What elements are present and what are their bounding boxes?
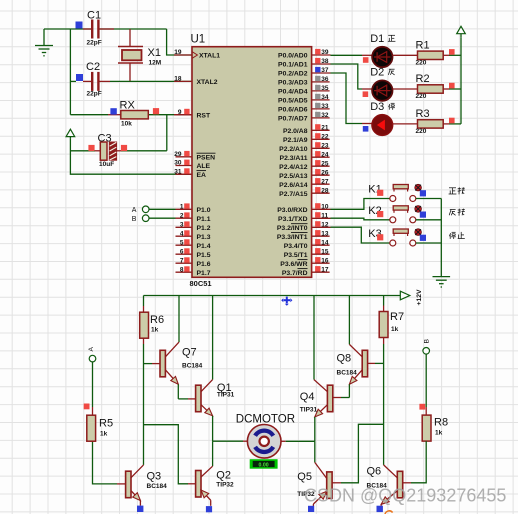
U1 pin 15 (P3.5/T1) bbox=[284, 248, 330, 259]
svg-text:R6: R6 bbox=[150, 314, 164, 326]
svg-text:D2: D2 bbox=[370, 67, 384, 79]
junction square (Q5 emitter, blue) bbox=[308, 506, 314, 512]
transistor Q2 (TIP32) bbox=[196, 466, 234, 500]
svg-text:11: 11 bbox=[321, 213, 328, 220]
svg-text:R5: R5 bbox=[99, 418, 113, 430]
wire: R7 bottom down to Q6 collector bbox=[383, 338, 385, 465]
junction square (Q2 emitter, blue) bbox=[206, 506, 212, 512]
label 反转 (K2) bbox=[449, 209, 465, 216]
svg-text:1k: 1k bbox=[391, 326, 399, 333]
svg-text:22pF: 22pF bbox=[87, 91, 102, 98]
svg-text:P3.3/INT1: P3.3/INT1 bbox=[277, 234, 308, 241]
svg-text:10uF: 10uF bbox=[99, 161, 114, 168]
svg-text:A: A bbox=[132, 207, 137, 214]
wire: Q3-collector node to Q2 base bbox=[144, 425, 196, 484]
junction square (C3 right, red) bbox=[121, 145, 127, 151]
svg-text:26: 26 bbox=[321, 169, 329, 176]
transistor Q6 (BC184) bbox=[367, 465, 403, 504]
wire: Q7 emitter to Q1 base bbox=[178, 384, 195, 399]
svg-text:9: 9 bbox=[178, 109, 182, 116]
svg-text:22pF: 22pF bbox=[87, 40, 102, 47]
power terminal (EA pull-up arrow) bbox=[66, 129, 75, 139]
ground (buttons) bbox=[433, 277, 451, 287]
U1 pin 30 (ALE) bbox=[174, 160, 210, 171]
svg-text:13: 13 bbox=[321, 230, 329, 237]
wire: R8 bottom to Q6 base bbox=[403, 441, 427, 483]
U1 pin 11 (P3.1/TXD) bbox=[278, 212, 330, 223]
svg-text:27: 27 bbox=[321, 178, 329, 185]
svg-text:TIP31: TIP31 bbox=[300, 407, 318, 414]
svg-text:4: 4 bbox=[180, 230, 184, 237]
U1 pin 10 (P3.0/RXD) bbox=[277, 203, 330, 214]
wire: Q6-collector node to Q5 base bbox=[332, 424, 383, 483]
junction square (K1 right, blue) bbox=[420, 190, 426, 196]
svg-text:C3: C3 bbox=[98, 133, 112, 145]
power terminal +12V (arrow right) bbox=[400, 289, 423, 306]
U1 pin 21 (P2.0/A8) bbox=[283, 124, 330, 135]
junction square (C3 left, red) bbox=[88, 145, 94, 151]
svg-text:24: 24 bbox=[321, 151, 329, 158]
svg-text:P3.2/INT0: P3.2/INT0 bbox=[277, 225, 308, 232]
svg-text:14: 14 bbox=[321, 239, 329, 246]
U1 pin 1 (P1.0) bbox=[180, 203, 211, 214]
svg-text:R8: R8 bbox=[434, 417, 448, 429]
junction square (K1 left, red) bbox=[377, 190, 383, 196]
svg-text:B: B bbox=[132, 216, 137, 223]
resistor R1 (220) bbox=[416, 40, 444, 67]
svg-text:D1: D1 bbox=[370, 33, 384, 45]
svg-text:3: 3 bbox=[180, 222, 184, 229]
svg-text:220: 220 bbox=[416, 93, 427, 100]
svg-text:P2.1/A9: P2.1/A9 bbox=[283, 137, 308, 144]
node A (terminal to P1.0) bbox=[132, 206, 192, 214]
svg-text:A: A bbox=[88, 347, 95, 352]
svg-text:P0.0/AD0: P0.0/AD0 bbox=[278, 53, 308, 60]
wire: buttons to ground bus bbox=[416, 199, 442, 277]
svg-text:P3.6/WR: P3.6/WR bbox=[280, 261, 307, 268]
svg-text:10: 10 bbox=[321, 204, 329, 211]
svg-text:1k: 1k bbox=[100, 431, 108, 438]
svg-text:DCMOTOR: DCMOTOR bbox=[236, 414, 295, 426]
svg-text:15: 15 bbox=[321, 248, 329, 255]
U1 pin 22 (P2.1/A9) bbox=[283, 133, 330, 144]
wire: +12V rail bbox=[144, 295, 401, 297]
U1 pin 27 (P2.6/A14) bbox=[279, 178, 329, 189]
svg-text:P2.4/A12: P2.4/A12 bbox=[279, 164, 308, 171]
wire: RST net (left rail to RX to U1 pin 9) bbox=[70, 115, 192, 151]
U1 pin 12 (P3.2/INT0) bbox=[277, 221, 331, 232]
svg-text:36: 36 bbox=[321, 76, 329, 83]
svg-text:Q5: Q5 bbox=[297, 471, 312, 483]
svg-text:1k: 1k bbox=[151, 327, 159, 334]
svg-text:XTAL1: XTAL1 bbox=[199, 53, 220, 60]
junction square (K3 right, blue) bbox=[420, 235, 426, 241]
svg-text:0.00: 0.00 bbox=[259, 462, 269, 468]
U1 pin 23 (P2.2/A10) bbox=[279, 142, 329, 153]
U1 pin 13 (P3.3/INT1) bbox=[277, 230, 330, 241]
U1 pin 17 (P3.7/RD) bbox=[282, 266, 330, 277]
svg-text:P0.5/AD5: P0.5/AD5 bbox=[278, 98, 308, 105]
junction square (RX left, blue) bbox=[110, 108, 116, 114]
svg-text:P3.1/TXD: P3.1/TXD bbox=[278, 216, 308, 223]
U1 pin 37 (P0.2/AD2) bbox=[278, 67, 330, 78]
wire: Q4 emitter / Q5 collector / motor right node bbox=[314, 417, 316, 463]
junction square (R5 top, red) bbox=[84, 404, 90, 410]
svg-text:1k: 1k bbox=[435, 430, 443, 437]
junction square (Q6 emitter, blue) bbox=[377, 506, 383, 512]
LED D1 bbox=[370, 33, 392, 67]
svg-text:PSEN: PSEN bbox=[197, 154, 216, 161]
U1 pin 16 (P3.6/WR) bbox=[280, 257, 329, 268]
svg-text:P0.4/AD4: P0.4/AD4 bbox=[278, 89, 308, 96]
junction square (R3 right, red) bbox=[449, 118, 455, 124]
svg-text:EA: EA bbox=[197, 172, 207, 179]
svg-text:ALE: ALE bbox=[197, 163, 211, 170]
label 停止 (K3) bbox=[449, 232, 464, 239]
svg-text:17: 17 bbox=[321, 266, 329, 273]
wire: Q1 emitter / Q2 collector / motor left node bbox=[213, 416, 248, 466]
svg-text:39: 39 bbox=[321, 49, 329, 56]
svg-text:P2.5/A13: P2.5/A13 bbox=[279, 173, 308, 180]
svg-text:R7: R7 bbox=[390, 311, 404, 323]
svg-text:P2.2/A10: P2.2/A10 bbox=[279, 146, 308, 153]
svg-text:23: 23 bbox=[321, 143, 329, 150]
svg-text:BC184: BC184 bbox=[182, 362, 203, 369]
U1 pin 6 (P1.5) bbox=[176, 248, 211, 258]
wire: rail to R7 top bbox=[383, 296, 385, 312]
junction square (R8 top, red) bbox=[419, 404, 425, 410]
junction square (C1 left, blue) bbox=[76, 22, 83, 29]
svg-text:37: 37 bbox=[321, 67, 329, 74]
watermark CSDN bbox=[304, 486, 506, 516]
transistor Q1 (TIP31) bbox=[196, 380, 235, 416]
U1 pin 7 (P1.6) bbox=[176, 257, 211, 268]
svg-text:P2.0/A8: P2.0/A8 bbox=[283, 128, 308, 135]
resistor R5 (1k) bbox=[87, 415, 113, 441]
svg-text:38: 38 bbox=[321, 58, 329, 65]
U1 pin 3 (P1.2) bbox=[176, 221, 211, 232]
svg-text:P1.4: P1.4 bbox=[197, 243, 211, 250]
capacitor C1 (22pF) bbox=[83, 10, 114, 47]
wire: C3 branch (y=150.8) bbox=[70, 150, 166, 152]
U1 pin 14 (P3.4/T0) bbox=[284, 239, 330, 250]
svg-text:R3: R3 bbox=[416, 108, 430, 120]
U1 pin 4 (P1.3) bbox=[176, 230, 211, 241]
wire: R6 bottom rail down to Q3 collector bbox=[143, 338, 145, 465]
junction square (K3 left, red) bbox=[377, 234, 383, 240]
svg-text:CSDN @QQ2193276455: CSDN @QQ2193276455 bbox=[304, 486, 506, 506]
origin marker (blue crosshair on rail) bbox=[281, 297, 292, 306]
label 正转 (K1) bbox=[449, 187, 465, 194]
svg-text:7: 7 bbox=[180, 257, 184, 264]
resistor R8 (1k) bbox=[422, 415, 448, 441]
wire: XTAL2 net (C2 right to U1 pin 18) bbox=[70, 80, 192, 82]
svg-text:P3.0/RXD: P3.0/RXD bbox=[277, 207, 307, 214]
wire: Q6 emitter stub bbox=[380, 504, 382, 506]
svg-text:U1: U1 bbox=[191, 34, 206, 46]
svg-text:P2.7/A15: P2.7/A15 bbox=[279, 191, 308, 198]
svg-text:P3.5/T1: P3.5/T1 bbox=[284, 252, 308, 259]
node A (terminal bottom left) bbox=[88, 347, 96, 362]
U1 pin 19 (XTAL1) bbox=[174, 49, 220, 59]
wire: node A to R5 bbox=[92, 362, 94, 415]
svg-text:B: B bbox=[423, 339, 430, 344]
wire: Q8 base tap bbox=[368, 362, 384, 364]
push button K3 bbox=[368, 228, 421, 246]
svg-text:Q8: Q8 bbox=[337, 353, 352, 365]
svg-text:34: 34 bbox=[321, 94, 329, 101]
LED D2 bbox=[370, 67, 392, 101]
svg-text:TIP32: TIP32 bbox=[216, 482, 234, 489]
svg-text:TIP31: TIP31 bbox=[217, 392, 235, 399]
U1 pin 38 (P0.1/AD1) bbox=[278, 58, 330, 69]
junction square (D2 left) bbox=[363, 91, 369, 97]
microcontroller U1 (80C51) body bbox=[190, 34, 312, 289]
wire: XTAL1 net (C1 right to U1 pin 19) bbox=[167, 29, 192, 55]
svg-text:35: 35 bbox=[321, 85, 329, 92]
U1 pin 9 (RST) bbox=[176, 109, 211, 120]
motor DCMOTOR bbox=[236, 414, 295, 459]
svg-text:P1.2: P1.2 bbox=[197, 225, 211, 232]
wire: U1 pin10 to K1 bbox=[331, 199, 390, 210]
wire: LED to R2 to +V bus bbox=[393, 88, 462, 90]
U1 pin 28 (P2.7/A15) bbox=[279, 187, 329, 198]
wire: Q4 collector to rail bbox=[313, 296, 315, 380]
resistor R6 (1k) bbox=[140, 312, 164, 338]
svg-text:28: 28 bbox=[321, 187, 329, 194]
wire: EA net (power arrow to U1 pin 31, with C3 tap) bbox=[70, 139, 192, 174]
svg-text:220: 220 bbox=[416, 59, 427, 66]
svg-text:16: 16 bbox=[321, 257, 329, 264]
resistor RX (10k) bbox=[120, 100, 149, 128]
wire: LED to R3 to +V bus bbox=[393, 123, 462, 125]
junction square (D3 left) bbox=[363, 126, 369, 132]
U1 pin 8 (P1.7) bbox=[176, 266, 211, 277]
svg-text:XTAL2: XTAL2 bbox=[197, 79, 218, 86]
capacitor C2 (22pF) bbox=[83, 61, 110, 98]
svg-text:X1: X1 bbox=[148, 47, 161, 59]
node B (terminal bottom right) bbox=[423, 339, 430, 355]
transistor Q4 (TIP31) bbox=[300, 380, 333, 417]
svg-text:P1.5: P1.5 bbox=[197, 252, 211, 259]
junction square (K2 left, red) bbox=[377, 211, 383, 217]
wire: R5 bottom to Q3 base bbox=[93, 441, 126, 484]
svg-text:D3: D3 bbox=[370, 101, 384, 113]
label D1 chinese bbox=[388, 35, 396, 41]
junction square (R1 right, red) bbox=[449, 49, 455, 55]
svg-text:19: 19 bbox=[174, 49, 182, 56]
junction square (K2 right, blue) bbox=[420, 212, 426, 218]
wire: Q5 emitter stub bbox=[312, 504, 314, 506]
svg-text:C1: C1 bbox=[87, 10, 101, 22]
wire: Q1 collector to rail bbox=[212, 296, 214, 380]
U1 pin 32 (P0.7/AD7) bbox=[278, 112, 330, 123]
svg-text:25: 25 bbox=[321, 160, 329, 167]
svg-text:R1: R1 bbox=[416, 40, 430, 52]
svg-text:18: 18 bbox=[174, 76, 182, 83]
U1 pin 35 (P0.4/AD4) bbox=[278, 85, 330, 96]
svg-text:8: 8 bbox=[180, 266, 184, 273]
svg-text:31: 31 bbox=[174, 168, 182, 175]
transistor Q8 (BC184) bbox=[337, 344, 368, 384]
U1 pin 29 (PSEN) bbox=[174, 151, 215, 162]
svg-text:P1.1: P1.1 bbox=[197, 216, 211, 223]
wire: U1 pin39 to LED D1 bbox=[331, 54, 373, 56]
svg-text:P0.7/AD7: P0.7/AD7 bbox=[278, 116, 308, 123]
U1 pin 36 (P0.3/AD3) bbox=[278, 76, 330, 87]
wire: U1 pin11 to K2 bbox=[331, 218, 390, 220]
svg-text:P0.2/AD2: P0.2/AD2 bbox=[278, 71, 308, 78]
wire: Q3 emitter stub bbox=[139, 501, 141, 506]
svg-text:Q7: Q7 bbox=[182, 347, 197, 359]
junction square (C2 left, blue) bbox=[76, 74, 83, 81]
svg-text:Q2: Q2 bbox=[216, 470, 231, 482]
svg-text:5: 5 bbox=[180, 239, 184, 246]
power terminal (LED bus, top right) bbox=[457, 26, 466, 38]
U1 pin 2 (P1.1) bbox=[180, 212, 211, 223]
ground (top-left) bbox=[35, 29, 53, 56]
capacitor C3 (10uF electrolytic) bbox=[95, 133, 121, 169]
U1 pin 39 (P0.0/AD0) bbox=[278, 49, 330, 60]
resistor R2 (220) bbox=[416, 73, 444, 100]
U1 pin 24 (P2.3/A11) bbox=[280, 151, 330, 162]
wire: +V bus for LEDs (x=461) bbox=[460, 38, 462, 124]
wire: ground to C1/C2 node (y=29) bbox=[44, 29, 167, 115]
resistor R7 (1k) bbox=[379, 311, 404, 338]
svg-text:P1.3: P1.3 bbox=[197, 234, 211, 241]
svg-text:R2: R2 bbox=[416, 73, 430, 85]
wire: node B to R8 bbox=[425, 354, 427, 415]
U1 pin 26 (P2.5/A13) bbox=[279, 169, 329, 180]
svg-text:80C51: 80C51 bbox=[190, 279, 212, 288]
svg-text:Q6: Q6 bbox=[367, 466, 382, 478]
wire: U1 pin37 to LED D3 bbox=[331, 73, 373, 124]
svg-text:21: 21 bbox=[321, 125, 329, 132]
svg-text:BC184: BC184 bbox=[337, 370, 358, 377]
wire: Q7 collector to rail bbox=[178, 296, 180, 343]
svg-text:Q4: Q4 bbox=[300, 391, 315, 403]
transistor Q3 (BC184) bbox=[126, 465, 168, 501]
wire: rail to R6 top bbox=[143, 296, 145, 313]
wire: Q2 emitter stub bbox=[210, 500, 212, 506]
svg-text:P1.0: P1.0 bbox=[197, 207, 211, 214]
U1 pin 33 (P0.6/AD6) bbox=[278, 103, 330, 114]
svg-text:P0.1/AD1: P0.1/AD1 bbox=[278, 62, 308, 69]
svg-text:P0.6/AD6: P0.6/AD6 bbox=[278, 107, 308, 114]
svg-text:6: 6 bbox=[180, 248, 184, 255]
wire: U1 pin12 to K3 bbox=[331, 227, 390, 243]
U1 pin 25 (P2.4/A12) bbox=[279, 160, 329, 171]
junction square (RX right, red) bbox=[153, 108, 159, 114]
wire: LED to R1 to +V bus bbox=[393, 54, 462, 56]
svg-text:RST: RST bbox=[197, 112, 211, 119]
svg-text:+12V: +12V bbox=[416, 289, 423, 306]
U1 pin 31 (EA) bbox=[174, 168, 206, 179]
svg-text:P3.7/RD: P3.7/RD bbox=[282, 270, 308, 277]
push button K2 bbox=[368, 205, 421, 223]
node B (terminal to P1.1) bbox=[132, 215, 192, 223]
svg-text:P1.7: P1.7 bbox=[197, 270, 211, 277]
svg-text:29: 29 bbox=[174, 151, 182, 158]
wire: motor right to Q4/Q5 node bbox=[281, 440, 315, 442]
push button K1 bbox=[368, 184, 421, 202]
wire: U1 pin38 to LED D2 bbox=[331, 64, 373, 89]
U1 pin 34 (P0.5/AD5) bbox=[278, 94, 330, 105]
junction square (Q3 emitter, blue) bbox=[137, 506, 143, 512]
junction square (D1 left) bbox=[363, 57, 369, 63]
svg-text:P2.6/A14: P2.6/A14 bbox=[279, 182, 308, 189]
transistor Q5 (TIP32) bbox=[297, 462, 332, 504]
svg-text:220: 220 bbox=[416, 128, 427, 135]
svg-text:12: 12 bbox=[321, 222, 329, 229]
svg-text:Q3: Q3 bbox=[147, 471, 162, 483]
svg-text:32: 32 bbox=[321, 112, 329, 119]
svg-text:RX: RX bbox=[120, 100, 136, 112]
wire: Q8 emitter to Q4 base bbox=[333, 384, 350, 397]
svg-text:10k: 10k bbox=[121, 121, 132, 128]
svg-text:C2: C2 bbox=[86, 61, 100, 73]
U1 pin 18 (XTAL2) bbox=[174, 76, 217, 86]
svg-text:P3.4/T0: P3.4/T0 bbox=[284, 243, 308, 250]
wire: Q8 collector to rail bbox=[348, 296, 350, 345]
svg-text:22: 22 bbox=[321, 134, 329, 141]
transistor Q7 (BC184) bbox=[160, 342, 203, 384]
motor rpm display bbox=[250, 459, 278, 469]
svg-text:12M: 12M bbox=[149, 60, 162, 67]
junction square (R2 right, red) bbox=[449, 83, 455, 89]
svg-text:33: 33 bbox=[321, 103, 329, 110]
svg-text:P1.6: P1.6 bbox=[197, 261, 211, 268]
resistor R3 (220) bbox=[416, 108, 444, 135]
svg-text:30: 30 bbox=[174, 160, 182, 167]
crystal X1 (12MHz) bbox=[118, 29, 161, 81]
svg-text:P2.3/A11: P2.3/A11 bbox=[280, 155, 308, 162]
label D3 chinese bbox=[389, 103, 395, 110]
svg-text:BC184: BC184 bbox=[147, 483, 168, 490]
LED D3 bbox=[370, 101, 392, 135]
svg-text:P0.3/AD3: P0.3/AD3 bbox=[278, 80, 308, 87]
U1 pin 5 (P1.4) bbox=[176, 239, 211, 250]
wire: Q7 base tap bbox=[144, 363, 161, 365]
label D2 chinese bbox=[388, 69, 394, 75]
